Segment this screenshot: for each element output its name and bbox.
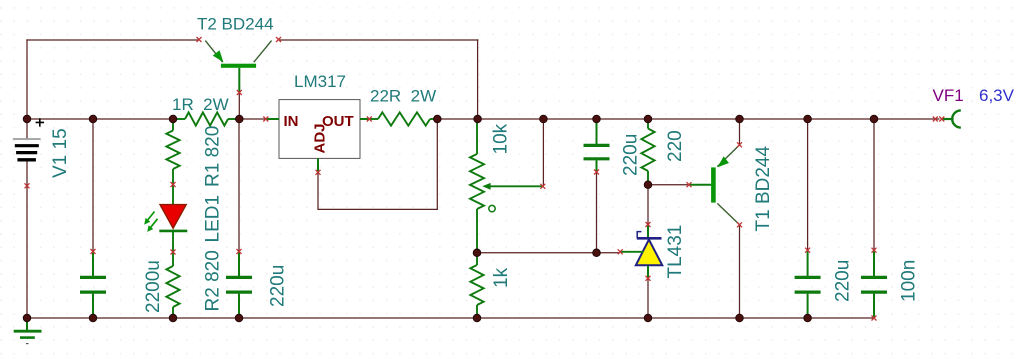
junction node T1 collector	[736, 314, 744, 322]
wire T2 base down to IN node	[238, 93, 240, 120]
wire T1 emitter to output rail	[739, 119, 741, 145]
pin junction LM317 IN pin	[263, 117, 268, 122]
svg-text:IN: IN	[284, 113, 299, 130]
svg-text:6,3V: 6,3V	[979, 86, 1015, 105]
svg-text:220: 220	[665, 130, 686, 162]
junction node OUT / ADJ loop	[434, 115, 442, 123]
battery V1 15	[13, 139, 41, 160]
svg-text:VF1: VF1	[933, 86, 964, 105]
pin junction TL431 ref pin	[618, 249, 623, 254]
junction node C220u(3) bottom	[804, 314, 812, 322]
junction node C2200u bottom	[89, 314, 97, 322]
resistor R2 820	[166, 252, 179, 318]
svg-text:100n: 100n	[899, 260, 920, 302]
LM317 pin OUT stub	[360, 118, 369, 120]
junction node C220u(3) top	[804, 115, 812, 123]
junction node R220 / TL431 / T1 base	[644, 181, 652, 189]
ground symbol	[14, 318, 42, 344]
wire C 220u (3) to output rail	[807, 119, 809, 250]
svg-text:2200u: 2200u	[143, 260, 164, 313]
wire ADJ feedback loop	[318, 119, 437, 209]
svg-text:LED1: LED1	[203, 195, 224, 243]
junction node ground rail left	[23, 314, 31, 322]
wire battery minus down to ground rail	[26, 160, 28, 318]
junction node ref line / C220u(2) bottom	[593, 249, 601, 257]
junction node R220 top	[644, 115, 652, 123]
svg-text:R1 820: R1 820	[203, 126, 224, 187]
resistor 1R 2W	[177, 112, 236, 125]
pin junction VF1 wire end	[933, 117, 938, 122]
wire battery top pin	[26, 119, 28, 139]
capacitor C 2200u	[80, 252, 106, 318]
capacitor C 220u (2)	[584, 120, 610, 172]
pin junction T2 emitter pin	[197, 37, 202, 42]
pin junction C220u input top pin	[237, 249, 242, 254]
capacitor C 220u (3)	[795, 250, 821, 318]
junction node T1 emitter	[736, 115, 744, 123]
pin junction T1 emitter pin	[737, 142, 742, 147]
svg-text:10k: 10k	[491, 123, 512, 154]
wire C 220u input cap to IN node	[238, 119, 240, 252]
junction node IN / T2 base	[236, 115, 244, 123]
svg-text:T1 BD244: T1 BD244	[753, 146, 774, 232]
junction node C100n top	[870, 115, 878, 123]
capacitor C 220u input	[226, 252, 252, 318]
svg-text:V1 15: V1 15	[50, 128, 71, 178]
pin junction battery minus pin	[25, 183, 30, 188]
wire C 100n to output rail	[873, 119, 875, 250]
wire C 2200u to main rail	[92, 119, 94, 252]
junction node pot bottom / 1k	[473, 249, 481, 257]
junction node wiper riser	[540, 115, 548, 123]
pin junction C220u(3) top pin	[805, 248, 810, 253]
pin junction pot wiper pin	[540, 184, 545, 189]
wire TL431 anode to ground rail	[647, 278, 649, 318]
transistor T1 BD244	[689, 145, 739, 224]
pin junction T1 collector pin	[737, 222, 742, 227]
wire top rail left segment (battery+ to T2 emitter)	[26, 39, 199, 41]
wire ground rail	[27, 317, 874, 319]
wire wiper node riser	[542, 119, 544, 186]
LED1 light arrows	[144, 212, 157, 232]
pin junction R1/LED1 pin	[171, 182, 176, 187]
svg-text:R2 820: R2 820	[203, 250, 224, 311]
junction node battery+ / main rail	[23, 115, 31, 123]
svg-text:1k: 1k	[491, 267, 512, 288]
wire left riser battery+ to top rail	[26, 39, 28, 119]
wire C 220u (2) bottom to ref node	[596, 172, 598, 253]
capacitor C 100n	[861, 250, 887, 318]
resistor 220	[641, 120, 654, 185]
pin junction LED1/R2 pin	[171, 250, 176, 255]
LM317 pin ADJ stub	[317, 158, 319, 172]
junction node C220u input bottom	[235, 314, 243, 322]
resistor 22R 2W	[369, 112, 437, 125]
svg-text:1R 2W: 1R 2W	[172, 95, 229, 114]
wire node to T1 base	[648, 184, 689, 186]
wire ref node horizontal (pot bottom to TL431 ref)	[477, 252, 620, 254]
connector VF1 output	[942, 110, 961, 127]
resistor R1 820	[166, 120, 179, 185]
svg-text:ADJ: ADJ	[312, 123, 329, 153]
svg-text:220u: 220u	[621, 134, 642, 176]
junction node R2 bottom	[169, 314, 177, 322]
svg-text:LM317: LM317	[294, 72, 346, 91]
pin junction T1 base pin	[687, 182, 692, 187]
resistor 1k	[470, 253, 483, 318]
pin junction LM317 OUT pin	[367, 117, 372, 122]
pin junction VF1 pin	[939, 117, 944, 122]
pin junction T2 base pin	[237, 90, 242, 95]
pin junction C2200u top pin	[91, 249, 96, 254]
wire main output rail 22R to VF1	[433, 118, 940, 120]
junction node 1R left / R1	[169, 115, 177, 123]
svg-text:220u: 220u	[833, 260, 854, 302]
pin junction ground rail end	[872, 316, 877, 321]
LED LED1	[159, 185, 187, 253]
wire 220 resistor node to TL431 cathode	[647, 185, 649, 225]
junction node 1k bottom	[473, 314, 481, 322]
pin junction TL431 cathode pin	[646, 222, 651, 227]
shunt reference U2 TL431	[620, 225, 662, 279]
junction node C220u(2) top	[593, 115, 601, 123]
wire T1 collector to ground rail	[739, 225, 741, 318]
svg-text:T2 BD244: T2 BD244	[197, 15, 274, 34]
junction node C2200u top	[89, 115, 97, 123]
svg-text:TL431: TL431	[665, 225, 686, 279]
pin junction C100n top pin	[872, 248, 877, 253]
wire top rail right segment (T2 collector to output node riser)	[279, 39, 479, 41]
svg-text:22R 2W: 22R 2W	[370, 87, 436, 106]
wire 1R to LM317 IN	[231, 118, 266, 120]
LM317 pin IN stub	[266, 118, 279, 120]
pin junction T2 collector pin	[276, 37, 281, 42]
pin junction TL431 anode pin	[646, 276, 651, 281]
wire main rail battery+ to 1R	[27, 118, 181, 120]
op-amp regulator U1 LM317 body	[279, 100, 360, 159]
wire riser top rail down to OUT node	[477, 39, 479, 119]
battery plus sign	[36, 118, 44, 126]
svg-text:220u: 220u	[268, 265, 289, 307]
pin junction LM317 ADJ pin	[316, 170, 321, 175]
junction node TL431 anode	[644, 314, 652, 322]
junction node pot top / riser	[474, 115, 482, 123]
potentiometer 10k	[470, 120, 543, 253]
pin junction C220u(2) bottom pin	[594, 170, 599, 175]
transistor T2 BD244	[205, 41, 271, 93]
